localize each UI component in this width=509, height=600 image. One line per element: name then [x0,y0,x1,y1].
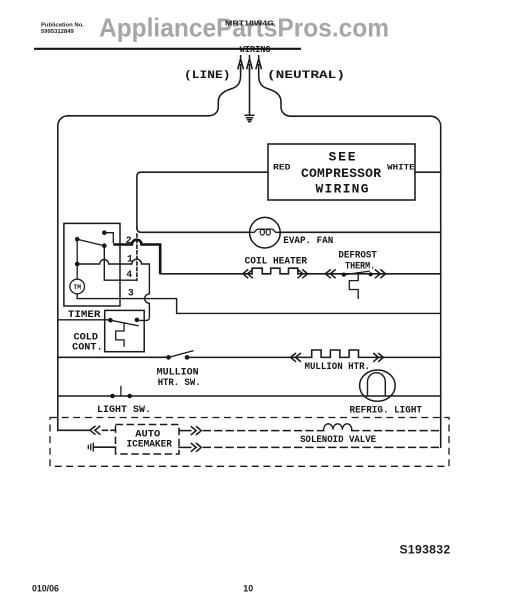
connector chevrons icemaker upper right [191,427,201,435]
connector chevrons left of mullion heater [291,354,301,362]
connector chevrons left of coil heater [243,270,252,278]
wire line-prong to top edge [68,69,241,116]
svg-text:2: 2 [126,235,132,246]
cold control blade [110,320,138,326]
plug prong arrow (neutral) [256,56,261,70]
resistor mullion heater [312,350,359,357]
light switch actuator tick [120,386,122,395]
svg-text:COIL HEATER: COIL HEATER [245,255,308,266]
timer pivot vertical [76,239,78,279]
svg-text:(LINE): (LINE) [184,70,231,82]
wire icemaker upper left [58,429,89,431]
wire evap fan feed [137,228,441,232]
wire cold control feed from left bus [58,319,111,321]
svg-text:HTR. SW.: HTR. SW. [158,377,201,388]
svg-text:10: 10 [243,583,253,593]
svg-text:LIGHT SW.: LIGHT SW. [97,404,151,415]
evap fan motor [250,217,281,248]
svg-text:S193832: S193832 [400,542,451,556]
svg-text:4: 4 [126,269,132,280]
svg-text:COMPRESSOR: COMPRESSOR [301,166,381,181]
svg-text:MULLION HTR.: MULLION HTR. [305,361,371,372]
plug prong arrow (ground pin) [247,56,252,70]
mullion heater switch blade [169,351,194,358]
timer wire contact2 stub [104,233,113,244]
connector chevrons right of defrost thermostat [376,270,386,278]
cold control terminal dots [108,318,139,323]
ground symbol [245,115,255,121]
timer T1 [64,223,120,306]
svg-text:5995312849: 5995312849 [41,29,74,35]
defrost thermostat sensing element [349,273,358,299]
wire RED lead [137,172,268,228]
wire dashed to solenoid [204,430,324,432]
svg-text:RED: RED [273,163,291,173]
svg-text:010/06: 010/06 [32,583,59,593]
svg-text:REFRIG. LIGHT: REFRIG. LIGHT [350,404,423,415]
svg-text:3: 3 [128,287,134,298]
connector chevrons icemaker lower right [191,444,201,452]
svg-text:SEE: SEE [329,150,356,165]
wire icemaker upper right [179,430,191,432]
wire dashed to icemaker box [103,429,116,431]
svg-text:WHITE: WHITE [387,163,415,173]
refrigerator light bulb [360,370,396,401]
timer junction dots [75,230,107,266]
wire timer contact 2 to coil heater (thick) [113,240,160,274]
wire icemaker lower right [179,446,191,448]
svg-text:SOLENOID VALVE: SOLENOID VALVE [300,434,376,445]
resistor coil heater [252,268,298,274]
svg-text:1: 1 [127,254,133,265]
ground wire stem [249,69,251,115]
wire timer motor to contact 3 / solenoid feed [77,294,441,314]
svg-text:MRT18W4G: MRT18W4G [225,19,274,28]
header rule [34,48,301,50]
svg-text:THERM.: THERM. [345,260,375,271]
mullion heater switch dots [166,355,189,360]
wire icemaker lower left [93,446,115,448]
svg-text:DEFROST: DEFROST [338,249,377,260]
svg-text:Publication No.: Publication No. [41,23,84,29]
svg-text:ICEMAKER: ICEMAKER [127,439,173,450]
wire timer contact 1 to cold control [77,259,149,320]
svg-text:(NEUTRAL): (NEUTRAL) [267,70,345,82]
defrost thermostat terminal dots [342,272,373,277]
wire light line [58,395,441,397]
svg-text:CONT.: CONT. [72,341,103,352]
plug prong arrow (line) [238,56,243,70]
main box right edge [431,116,441,447]
wire WHITE lead [415,171,441,173]
wire coil heater line [160,273,441,275]
timer blade [77,239,104,246]
water supply spade terminal [88,443,93,451]
svg-text:TM: TM [73,284,81,291]
wire dashed solenoid to right edge [352,430,441,432]
cold control sensing element [116,323,124,347]
connector chevrons right of mullion heater [374,354,384,362]
wire neutral-prong to top edge [259,69,431,117]
svg-text:WIRING: WIRING [240,45,271,55]
compressor box [268,144,415,200]
cold control [58,310,144,351]
solenoid valve coil L1 [324,424,352,430]
connector chevrons right of coil heater [298,270,308,278]
connector chevrons left of defrost thermostat [325,270,335,278]
wire mullion heater line [58,356,441,358]
svg-text:TIMER: TIMER [68,309,101,320]
light switch dots [110,394,132,399]
defrost thermostat blade [344,271,369,275]
timer motor TM [70,279,85,294]
svg-text:EVAP. FAN: EVAP. FAN [283,235,333,246]
connector chevrons icemaker upper left [90,426,100,434]
main box left edge [58,116,68,431]
wire dashed lower to right edge [204,446,441,448]
svg-text:MULLION: MULLION [157,366,199,377]
wire timer contact 4 [104,246,137,281]
node vertical bus to timer contact 4 (mechanical dashed) [136,234,138,280]
auto icemaker box (dashed) [116,425,180,455]
icemaker kit dashed boundary box [50,418,449,467]
